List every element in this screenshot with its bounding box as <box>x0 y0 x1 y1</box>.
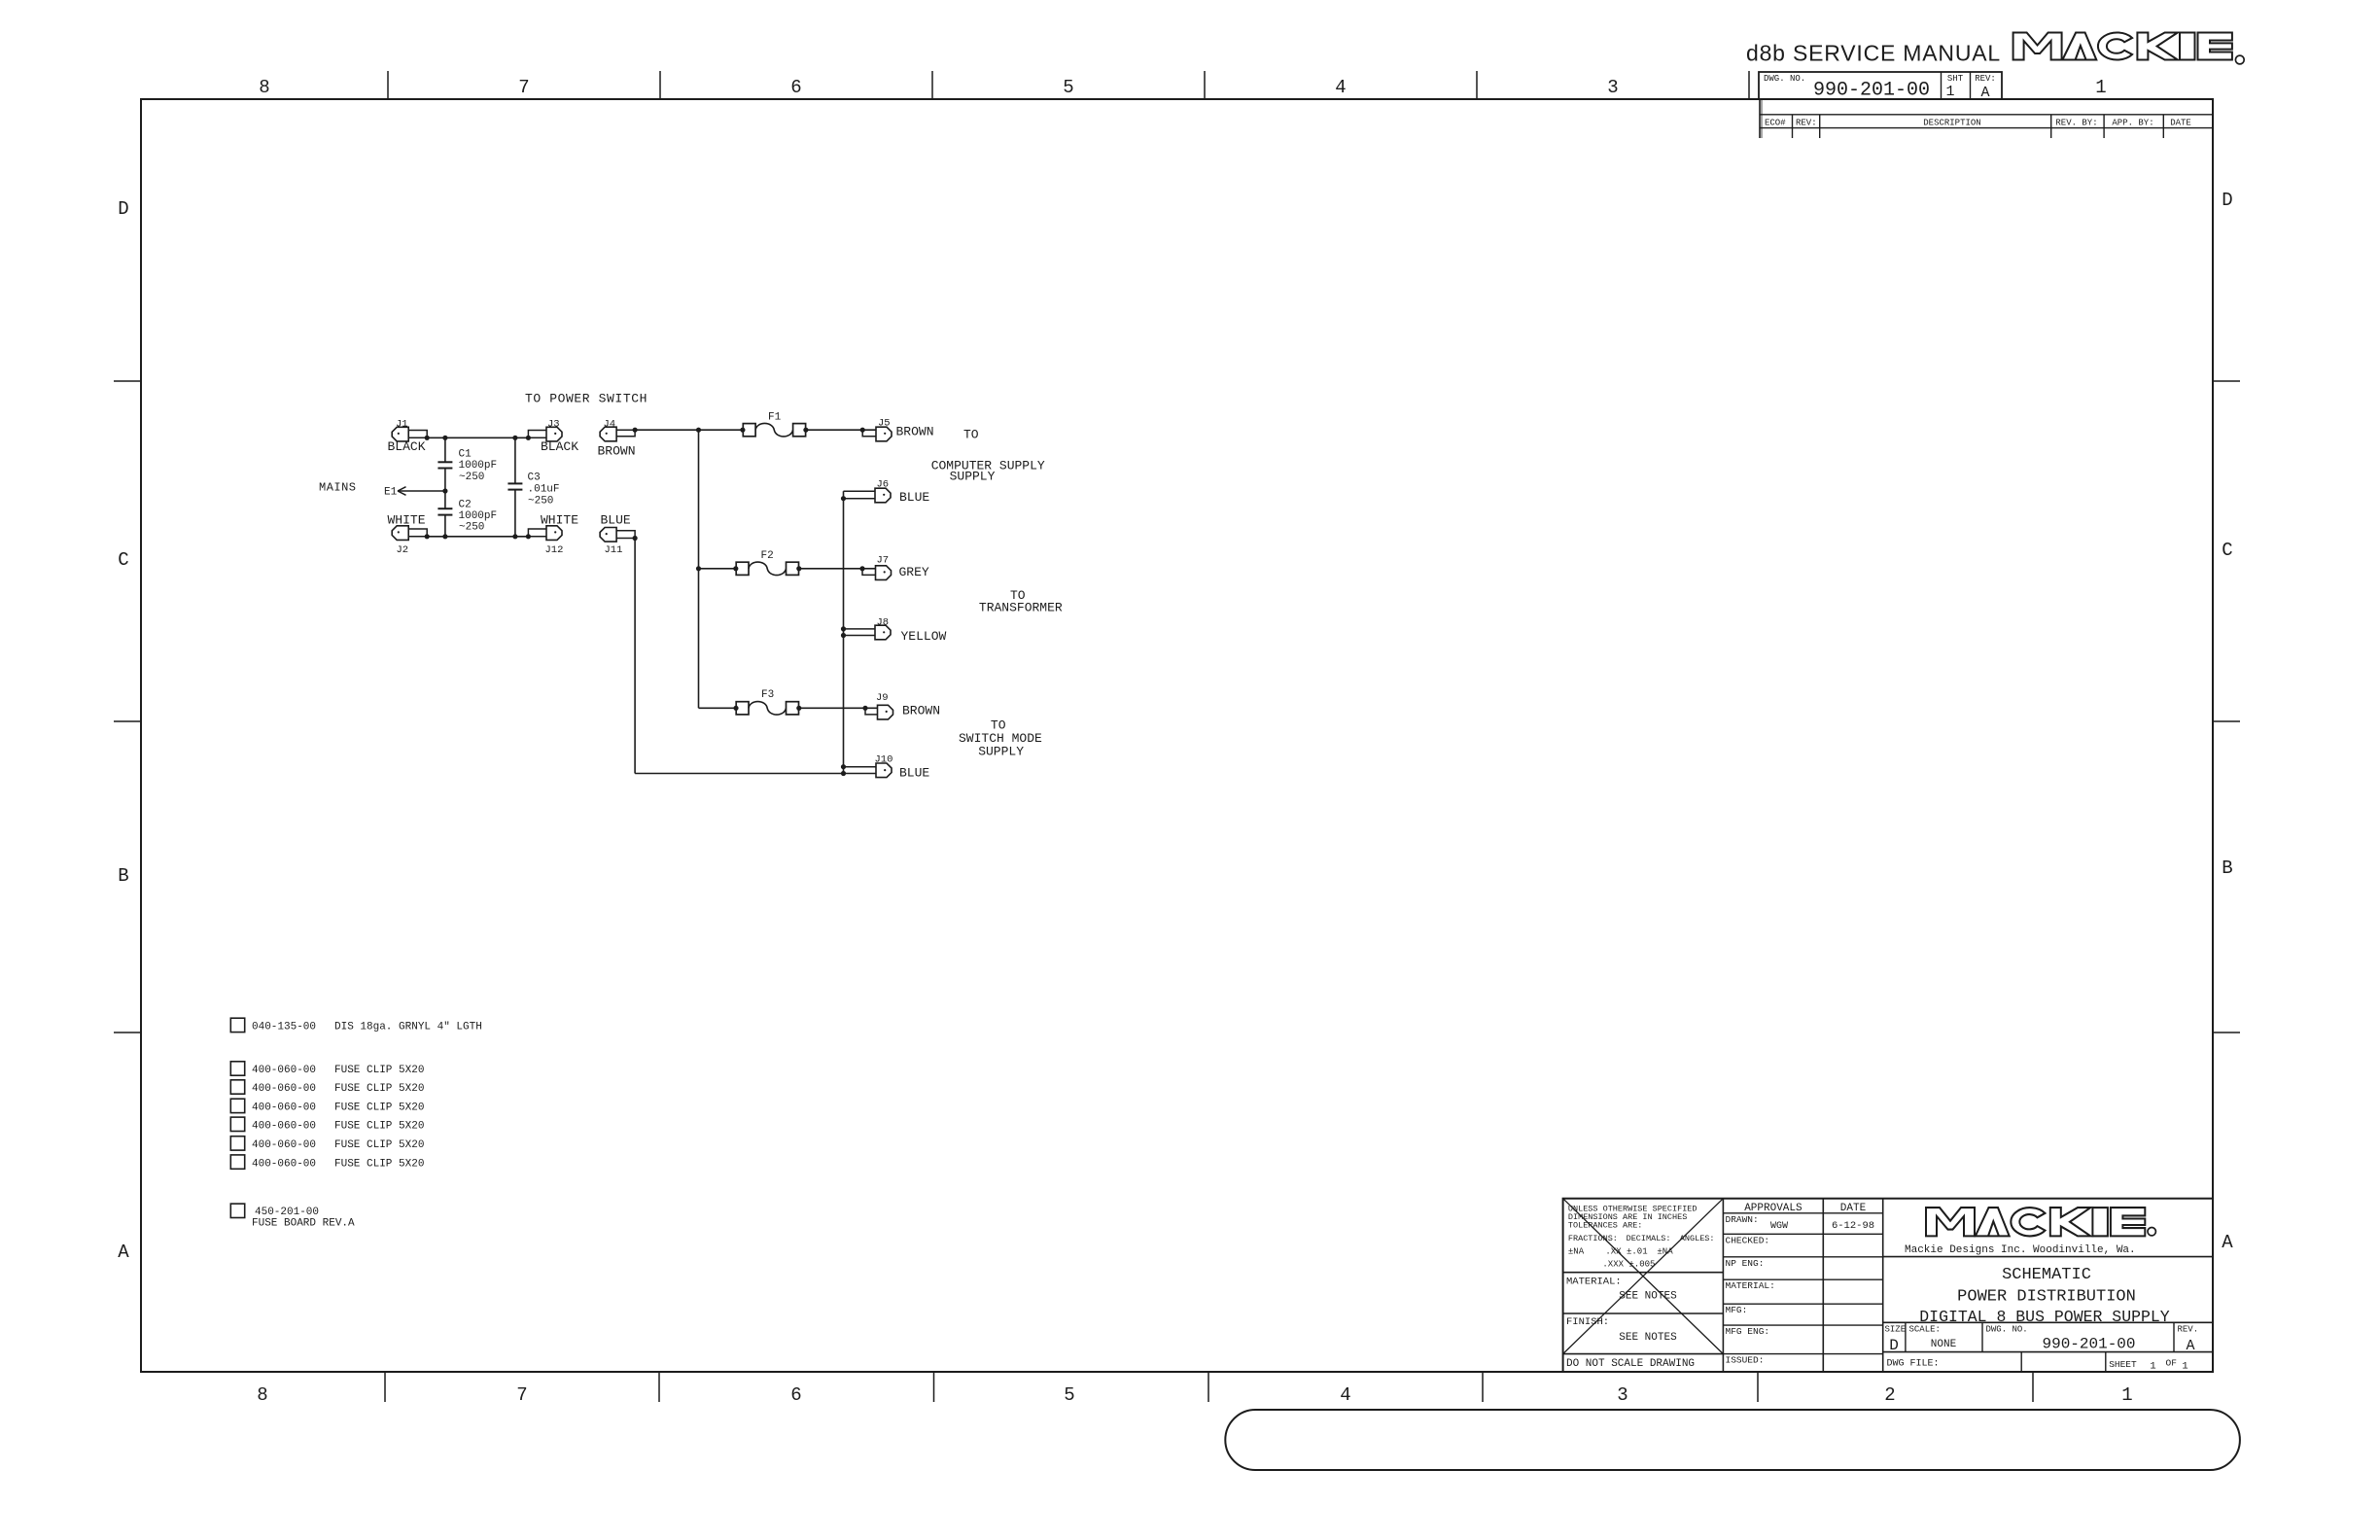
svg-text:SEE NOTES: SEE NOTES <box>1619 1332 1677 1344</box>
svg-text:BLACK: BLACK <box>388 439 426 454</box>
wire F3 to J9 <box>799 707 878 709</box>
bottom rounded box <box>1225 1410 2240 1470</box>
svg-text:4: 4 <box>1340 1384 1350 1406</box>
connector J3 <box>546 427 562 441</box>
capacitor C2 <box>437 507 452 509</box>
svg-text:FUSE CLIP 5X20: FUSE CLIP 5X20 <box>334 1158 424 1170</box>
svg-text:D: D <box>118 198 128 220</box>
svg-text:ISSUED:: ISSUED: <box>1726 1355 1765 1366</box>
parts list item 400-060-00 fuse clip 6 <box>230 1155 244 1169</box>
revision table <box>1759 99 1761 138</box>
parts list item 400-060-00 fuse clip 1 <box>230 1062 244 1075</box>
svg-text:J10: J10 <box>875 754 893 766</box>
svg-text:1: 1 <box>2182 1361 2187 1373</box>
svg-text:BROWN: BROWN <box>598 444 636 459</box>
svg-text:F3: F3 <box>761 689 774 701</box>
svg-text:J6: J6 <box>877 479 890 491</box>
svg-text:ECO#: ECO# <box>1765 119 1786 128</box>
svg-text:J1: J1 <box>396 418 408 430</box>
svg-text:2: 2 <box>1884 1384 1895 1406</box>
svg-text:GREY: GREY <box>899 565 929 579</box>
svg-text:DRAWN:: DRAWN: <box>1726 1214 1759 1225</box>
svg-text:FUSE CLIP 5X20: FUSE CLIP 5X20 <box>334 1121 424 1133</box>
svg-text:SCALE:: SCALE: <box>1909 1325 1941 1335</box>
svg-text:DESCRIPTION: DESCRIPTION <box>1923 119 1980 128</box>
parts list item 400-060-00 fuse clip 5 <box>230 1137 244 1150</box>
svg-text:J3: J3 <box>547 418 560 430</box>
svg-text:J11: J11 <box>605 544 623 556</box>
svg-text:~250: ~250 <box>459 472 484 483</box>
svg-text:DWG. NO.: DWG. NO. <box>1986 1325 2028 1335</box>
svg-text:±NA: ±NA <box>1568 1247 1585 1257</box>
connector J6 <box>875 488 891 503</box>
connector J2 <box>392 526 408 541</box>
drawing number box top <box>1759 72 2002 99</box>
node E1 arrow <box>442 488 447 493</box>
connector J10 <box>876 763 892 778</box>
left zone ticks <box>114 380 141 382</box>
svg-text:DATE: DATE <box>2170 119 2191 128</box>
svg-text:990-201-00: 990-201-00 <box>1813 80 1930 102</box>
svg-text:WGW: WGW <box>1770 1221 1788 1232</box>
svg-text:3: 3 <box>1617 1384 1627 1406</box>
svg-text:C3: C3 <box>528 472 541 484</box>
svg-text:DO NOT SCALE DRAWING: DO NOT SCALE DRAWING <box>1566 1358 1695 1370</box>
svg-text:TO POWER SWITCH: TO POWER SWITCH <box>525 392 647 406</box>
svg-text:DWG. NO.: DWG. NO. <box>1764 74 1805 84</box>
fuse F2 <box>736 562 749 575</box>
wire J1 to J3 <box>427 437 528 438</box>
svg-text:SEE NOTES: SEE NOTES <box>1619 1291 1677 1303</box>
svg-text:d8b SERVICE MANUAL: d8b SERVICE MANUAL <box>1746 41 2001 66</box>
connector J7 <box>876 566 892 580</box>
wire J2 to J12 <box>427 536 528 538</box>
connector J8 <box>875 625 891 640</box>
svg-text:.XXX ±.005: .XXX ±.005 <box>1602 1260 1655 1270</box>
title block outer <box>1563 1199 2213 1372</box>
svg-text:400-060-00: 400-060-00 <box>252 1139 316 1151</box>
connector J11 <box>600 528 616 542</box>
svg-text:400-060-00: 400-060-00 <box>252 1121 316 1133</box>
svg-text:~250: ~250 <box>528 496 553 507</box>
svg-text:SIZE: SIZE <box>1885 1325 1907 1335</box>
parts list item 450-201-00 fuse board <box>230 1204 244 1217</box>
wire J4 to F1 <box>635 429 743 431</box>
svg-text:400-060-00: 400-060-00 <box>252 1083 316 1095</box>
svg-text:POWER DISTRIBUTION: POWER DISTRIBUTION <box>1957 1288 2136 1307</box>
svg-text:OF: OF <box>2166 1358 2178 1369</box>
fuse F1 <box>743 424 755 437</box>
title block column dividers <box>1722 1199 1724 1372</box>
svg-text:REV. BY:: REV. BY: <box>2055 119 2097 128</box>
right zone ticks <box>2213 380 2240 382</box>
svg-text:400-060-00: 400-060-00 <box>252 1065 316 1076</box>
svg-text:J9: J9 <box>876 692 889 704</box>
svg-text:YELLOW: YELLOW <box>901 629 947 644</box>
svg-text:FRACTIONS:: FRACTIONS: <box>1568 1234 1618 1243</box>
sheet border frame <box>141 99 2213 1372</box>
svg-text:FUSE CLIP 5X20: FUSE CLIP 5X20 <box>334 1139 424 1151</box>
connector J9 <box>878 705 893 719</box>
svg-text:FUSE BOARD REV.A: FUSE BOARD REV.A <box>252 1218 355 1230</box>
svg-text:J12: J12 <box>545 544 564 556</box>
wire J11 down and right to J10 <box>633 536 638 541</box>
svg-text:DATE: DATE <box>1840 1203 1867 1214</box>
bottom zone ticks <box>384 1372 386 1402</box>
svg-text:DIS 18ga. GRNYL 4" LGTH: DIS 18ga. GRNYL 4" LGTH <box>334 1022 482 1033</box>
svg-text:BLACK: BLACK <box>541 439 578 454</box>
svg-text:A: A <box>2186 1338 2194 1354</box>
svg-text:SUPPLY: SUPPLY <box>950 470 996 484</box>
svg-text:C2: C2 <box>459 500 472 511</box>
svg-text:450-201-00: 450-201-00 <box>255 1207 319 1218</box>
connector J4 <box>600 427 616 441</box>
svg-text:MATERIAL:: MATERIAL: <box>1566 1277 1622 1288</box>
svg-text:F1: F1 <box>768 412 782 424</box>
svg-text:WHITE: WHITE <box>541 513 578 528</box>
parts list item 400-060-00 fuse clip 4 <box>230 1117 244 1131</box>
svg-text:SUPPLY: SUPPLY <box>978 745 1024 759</box>
svg-text:6-12-98: 6-12-98 <box>1832 1220 1874 1232</box>
svg-text:A: A <box>118 1242 129 1263</box>
svg-text:NP ENG:: NP ENG: <box>1726 1258 1765 1269</box>
svg-text:±NA: ±NA <box>1657 1247 1673 1257</box>
fuse F3 <box>736 702 749 715</box>
svg-text:BROWN: BROWN <box>902 704 940 718</box>
svg-text:1: 1 <box>2121 1384 2132 1406</box>
svg-text:8: 8 <box>259 77 269 98</box>
svg-text:C: C <box>2222 540 2232 561</box>
svg-text:400-060-00: 400-060-00 <box>252 1102 316 1114</box>
svg-text:1: 1 <box>2095 77 2106 98</box>
svg-text:F2: F2 <box>761 550 774 562</box>
svg-text:7: 7 <box>518 77 529 98</box>
svg-text:J5: J5 <box>878 417 891 429</box>
wire F1 to J5 <box>806 429 876 431</box>
title block left column rows <box>1563 1272 1724 1274</box>
MACKIE logo header <box>2013 33 2232 60</box>
svg-text:BROWN: BROWN <box>896 425 934 439</box>
svg-text:MATERIAL:: MATERIAL: <box>1726 1280 1775 1291</box>
svg-text:FUSE CLIP 5X20: FUSE CLIP 5X20 <box>334 1065 424 1076</box>
dwg file sheet row <box>2020 1352 2022 1372</box>
svg-text:6: 6 <box>790 77 801 98</box>
svg-text:TRANSFORMER: TRANSFORMER <box>979 601 1063 615</box>
svg-text:BLUE: BLUE <box>899 766 929 781</box>
svg-text:7: 7 <box>516 1384 527 1406</box>
svg-text:8: 8 <box>257 1384 267 1406</box>
parts list item 400-060-00 fuse clip 3 <box>230 1099 244 1112</box>
svg-text:NONE: NONE <box>1931 1339 1957 1350</box>
svg-text:4: 4 <box>1335 77 1346 98</box>
svg-text:BLUE: BLUE <box>601 513 631 528</box>
svg-text:DIGITAL 8 BUS POWER SUPPLY: DIGITAL 8 BUS POWER SUPPLY <box>1919 1308 2170 1326</box>
wire F2 to J7 <box>799 568 876 570</box>
svg-text:990-201-00: 990-201-00 <box>2042 1336 2135 1353</box>
connector J1 <box>392 427 408 441</box>
svg-text:APPROVALS: APPROVALS <box>1744 1203 1802 1214</box>
capacitor C3 <box>514 437 516 483</box>
svg-text:REV:: REV: <box>1975 74 1996 84</box>
svg-text:400-060-00: 400-060-00 <box>252 1158 316 1170</box>
title block right column rows <box>1883 1256 2213 1258</box>
svg-text:.01uF: .01uF <box>528 484 560 496</box>
svg-text:J4: J4 <box>604 418 616 430</box>
svg-text:CHECKED:: CHECKED: <box>1726 1235 1770 1245</box>
wire vertical branch to F2 F3 <box>698 430 700 708</box>
svg-text:1000pF: 1000pF <box>459 510 498 522</box>
svg-text:5: 5 <box>1063 77 1073 98</box>
wire branch to F2 <box>699 568 737 570</box>
svg-text:1000pF: 1000pF <box>459 460 498 472</box>
wire branch to F3 <box>699 707 737 709</box>
svg-text:REV.: REV. <box>2178 1325 2199 1335</box>
connector J12 <box>546 526 562 541</box>
svg-text:E1: E1 <box>384 487 398 499</box>
svg-text:C1: C1 <box>459 449 472 461</box>
svg-text:DECIMALS:: DECIMALS: <box>1627 1234 1671 1243</box>
svg-text:SCHEMATIC: SCHEMATIC <box>2002 1266 2091 1284</box>
svg-text:D: D <box>2222 190 2232 211</box>
svg-text:J8: J8 <box>877 616 890 628</box>
svg-text:FUSE CLIP 5X20: FUSE CLIP 5X20 <box>334 1083 424 1095</box>
parts list item 400-060-00 fuse clip 2 <box>230 1080 244 1094</box>
top zone ticks <box>387 71 389 99</box>
title block X cross <box>1563 1199 1724 1354</box>
svg-text:MAINS: MAINS <box>319 481 357 495</box>
svg-text:APP. BY:: APP. BY: <box>2112 119 2153 128</box>
svg-text:A: A <box>2222 1232 2233 1253</box>
MACKIE logo title block <box>1926 1207 2145 1236</box>
svg-text:SHT: SHT <box>1947 74 1964 84</box>
svg-text:WHITE: WHITE <box>388 513 426 528</box>
svg-text:SHEET: SHEET <box>2109 1359 2137 1370</box>
svg-text:B: B <box>2222 857 2232 879</box>
wire bus J6 J8 J10 <box>843 491 845 773</box>
svg-text:1: 1 <box>1945 84 1954 100</box>
svg-text:MFG:: MFG: <box>1726 1305 1748 1315</box>
svg-text:1: 1 <box>2150 1361 2155 1373</box>
svg-text:D: D <box>1889 1337 1899 1354</box>
svg-text:ANGLES:: ANGLES: <box>1680 1234 1715 1243</box>
connector J5 <box>876 427 892 441</box>
svg-text:A: A <box>1980 85 1989 101</box>
svg-text:.XX ±.01: .XX ±.01 <box>1605 1247 1647 1257</box>
svg-text:J2: J2 <box>397 544 409 556</box>
svg-text:5: 5 <box>1064 1384 1074 1406</box>
svg-text:MFG ENG:: MFG ENG: <box>1726 1326 1770 1337</box>
svg-text:3: 3 <box>1607 77 1618 98</box>
size scale dwgno rev row <box>1905 1322 1907 1351</box>
svg-text:TOLERANCES ARE:: TOLERANCES ARE: <box>1568 1220 1643 1230</box>
approvals column rows <box>1723 1212 1882 1214</box>
svg-text:C: C <box>118 549 128 571</box>
svg-text:J7: J7 <box>877 554 890 566</box>
capacitor C1 <box>444 437 446 462</box>
svg-text:~250: ~250 <box>459 522 484 534</box>
parts list item 040-135-00 <box>230 1018 244 1032</box>
svg-text:DWG FILE:: DWG FILE: <box>1887 1359 1940 1370</box>
svg-text:6: 6 <box>790 1384 801 1406</box>
svg-text:Mackie Designs Inc. Woodinvil: Mackie Designs Inc. Woodinville, Wa. <box>1905 1244 2136 1256</box>
svg-text:REV:: REV: <box>1796 119 1817 128</box>
svg-text:FUSE CLIP 5X20: FUSE CLIP 5X20 <box>334 1102 424 1114</box>
svg-text:BLUE: BLUE <box>899 490 929 505</box>
svg-text:040-135-00: 040-135-00 <box>252 1022 316 1033</box>
svg-text:B: B <box>118 865 128 887</box>
svg-text:TO: TO <box>963 428 979 442</box>
svg-text:FINISH:: FINISH: <box>1566 1316 1609 1328</box>
